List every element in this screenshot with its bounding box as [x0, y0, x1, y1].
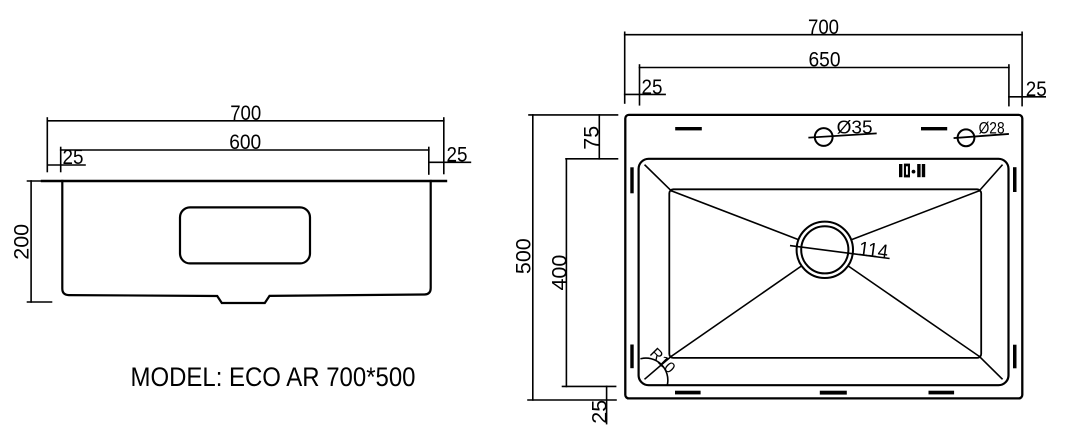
dimension line 600 — [61, 149, 429, 151]
inner cutout rounded rectangle (front view) — [180, 207, 310, 263]
dimension line 400 (vertical) — [565, 159, 567, 387]
svg-text:Ø35: Ø35 — [837, 117, 873, 138]
corner diagonal top-right — [979, 165, 1002, 191]
svg-text:MODEL: ECO AR 700*500: MODEL: ECO AR 700*500 — [131, 362, 416, 392]
drain inner circle — [801, 226, 848, 273]
clip bottom-right — [929, 391, 955, 395]
leader line for D28 label — [955, 134, 1009, 138]
svg-text:75: 75 — [579, 126, 603, 150]
dim 200 top tick — [28, 180, 52, 182]
svg-text:R10: R10 — [646, 345, 678, 377]
slope diagonal from bottom-right corner to drain — [849, 267, 979, 357]
clip bottom-left — [675, 391, 701, 395]
bowl top-edge rounded rectangle — [639, 159, 1009, 385]
dimension line 700 (top view) — [625, 34, 1022, 36]
svg-text:700: 700 — [230, 101, 261, 125]
dimension line 200 (vertical) — [30, 181, 32, 302]
dimension line 25 left (top view) — [625, 93, 665, 95]
svg-text:114: 114 — [857, 238, 889, 264]
dim 500/25 bottom tick — [528, 399, 616, 401]
svg-text:25: 25 — [1026, 77, 1047, 101]
leader line for D35 label — [809, 133, 876, 137]
dim 700 left extension — [46, 118, 48, 172]
svg-text:400: 400 — [547, 255, 571, 291]
corner diagonal bottom-left — [645, 356, 671, 378]
svg-text:25: 25 — [447, 143, 468, 167]
corner diagonal top-left — [645, 165, 671, 191]
svg-text:Ø28: Ø28 — [979, 120, 1005, 138]
dimension line 700 (left view) — [47, 120, 444, 122]
slope diagonal from top-right corner to drain — [852, 191, 979, 240]
svg-text:25: 25 — [63, 145, 84, 169]
clip left-lower — [630, 345, 633, 369]
dimension line 25 right (left view) — [429, 161, 471, 163]
slope diagonal from top-left corner to drain — [671, 191, 797, 239]
clip left-upper — [630, 167, 633, 193]
svg-text:25: 25 — [587, 400, 611, 424]
clip right-lower — [1013, 345, 1017, 369]
dim 400 bottom tick — [563, 385, 616, 387]
slope diagonal from bottom-left corner to drain — [671, 267, 800, 357]
svg-text:500: 500 — [512, 238, 536, 274]
dim 650 left extension — [639, 65, 641, 105]
dim 600 left extension — [60, 148, 62, 172]
clip right-upper — [1013, 167, 1017, 192]
outer sink rim rectangle — [625, 115, 1022, 399]
R10 arc callout — [641, 358, 668, 384]
leader line 114 — [791, 246, 889, 259]
dim 700 right extension (top view) — [1021, 32, 1023, 105]
faucet hole circle D35 — [815, 128, 833, 146]
svg-text:200: 200 — [10, 224, 34, 260]
dim 75 bottom tick — [566, 158, 618, 160]
sink body outline (front view) — [62, 181, 430, 303]
dim 500/75 top tick — [529, 114, 618, 116]
dimension line 650 — [640, 67, 1009, 69]
svg-text:650: 650 — [809, 48, 841, 72]
bowl bottom rectangle — [669, 189, 981, 358]
soap hole circle D28 — [958, 129, 975, 146]
clip bottom-middle — [820, 391, 847, 395]
svg-text:25: 25 — [642, 75, 663, 99]
dimension line 25 left (left view) — [47, 164, 85, 166]
clip top-right — [921, 127, 947, 130]
drain outer circle — [797, 222, 853, 278]
dim 650 right extension — [1008, 65, 1010, 106]
svg-text:700: 700 — [808, 15, 839, 39]
dimension line 25 bottom-left (vertical) — [606, 386, 608, 423]
dim 700 right extension — [443, 118, 445, 174]
dimension line 500 (vertical) — [532, 115, 534, 400]
corner diagonal bottom-right — [979, 356, 1002, 378]
dim 700 left extension (top view) — [624, 32, 626, 103]
dim 600 right extension — [428, 148, 430, 175]
dimension line 75 (vertical) — [598, 115, 600, 159]
svg-text:600: 600 — [229, 130, 261, 154]
dim 200 bottom tick — [28, 301, 52, 303]
dimension line 25 right (top view) — [1009, 96, 1045, 98]
overflow mark glyph group — [899, 164, 925, 178]
clip top-left — [675, 127, 702, 130]
countertop line — [42, 180, 446, 182]
